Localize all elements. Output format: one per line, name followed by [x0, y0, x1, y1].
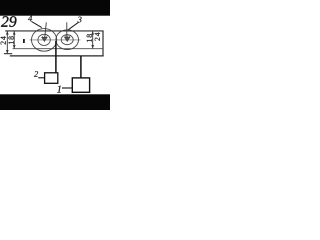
weight box 2 [45, 73, 58, 84]
leader line from 4 [31, 21, 41, 27]
leader dash of label 2 [38, 77, 44, 79]
label 1 [57, 86, 61, 93]
rotated dimension label 24 far left [1, 36, 6, 44]
rotated dimension label 18 left [8, 36, 13, 44]
axis centerline through pulleys [30, 39, 81, 41]
string S2 to weight 2 [55, 41, 57, 73]
string S1 to weight 1 [80, 56, 82, 78]
label 4 (pointer to left pulley) [28, 16, 32, 22]
wire: top horizontal line A [5, 30, 103, 32]
dimension line V3 x=92.7 (right) [91, 31, 94, 48]
wire: mid horizontal line C [13, 48, 103, 50]
axle support symbol P2 [64, 22, 70, 41]
pulley P2 inner hub [61, 35, 73, 45]
pulley P1 inner hub [38, 34, 50, 45]
weight box 1 [72, 78, 89, 92]
pulley P2 outer rim [56, 30, 79, 50]
axle support symbol P1 [41, 22, 47, 41]
dimension line V1 x=7.3 [6, 31, 9, 53]
rotated dimension label 24 right pair [95, 33, 100, 41]
leader line from 3 [68, 22, 78, 30]
label 2 [34, 71, 38, 77]
dimension line V2 x=14.2 [13, 31, 16, 48]
small tick mark left of axis [23, 39, 25, 43]
wire: bottom horizontal line B [10, 55, 104, 57]
leader dash of label 1 [62, 87, 72, 89]
bottom black scan band [0, 94, 110, 110]
paper background [0, 0, 110, 110]
label 3 (pointer to right pulley) [78, 17, 82, 23]
wire: right vertical corner drop [102, 31, 104, 57]
top black scan band [0, 0, 110, 16]
rotated dimension label 18 right pair [87, 34, 92, 42]
pulley P1 outer rim [31, 29, 56, 52]
wire: short left line D [4, 53, 12, 55]
figure number 29 [1, 16, 16, 27]
